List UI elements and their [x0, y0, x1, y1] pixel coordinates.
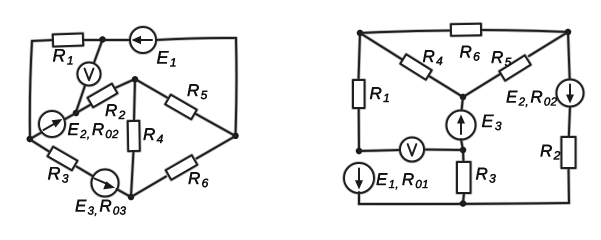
wire R6 to TR [481, 30, 568, 32]
svg-text:E3: E3 [482, 111, 502, 133]
wire top left to R6 [360, 31, 451, 34]
wire node H to R3 [462, 150, 465, 162]
wire voltmeter to node H [424, 149, 463, 152]
voltmeter V (right) [400, 138, 424, 162]
svg-text:E1: E1 [157, 48, 177, 70]
resistor R3 (right circuit) [457, 162, 471, 193]
resistor R1 [53, 33, 83, 46]
svg-text:R4: R4 [423, 47, 444, 68]
wire R6 to node F [197, 136, 236, 159]
wire left side down [30, 41, 32, 139]
svg-text:R5: R5 [187, 81, 208, 102]
wire node A to voltmeter [94, 41, 102, 64]
wire E3 to node H [461, 139, 463, 150]
node I [356, 148, 362, 154]
wire node C to R2 [76, 105, 90, 113]
wire R3 to E3 [77, 167, 94, 177]
wire E1 to TR corner [156, 38, 236, 40]
wire E3 to node E [117, 189, 132, 197]
resistor R5 [165, 95, 196, 120]
svg-text:R3: R3 [476, 165, 497, 186]
wire R3 to node J [463, 193, 464, 204]
wire R4 to node G [429, 76, 463, 97]
resistor R2 [88, 84, 118, 108]
node J [460, 200, 466, 206]
wire node G to E3 [462, 97, 464, 111]
resistor R4 [128, 121, 140, 151]
resistor R1 (right circuit) [353, 80, 365, 108]
node A [99, 36, 105, 42]
wire R2 to node B [115, 79, 135, 88]
svg-text:R1: R1 [53, 46, 74, 68]
wire TL corner to R1 [32, 40, 53, 41]
resistor R2 (right circuit) [562, 137, 576, 168]
EMF source E1 (right circuit) [344, 163, 374, 193]
node D [27, 136, 33, 142]
svg-text:R2: R2 [105, 101, 126, 122]
wire R1 to node A [83, 39, 101, 41]
EMF source E2 [39, 111, 65, 137]
node C [73, 110, 79, 116]
node TL (right circuit) [357, 30, 363, 36]
wire node E to R6 [131, 177, 166, 198]
EMF source E2 (right circuit) [557, 80, 584, 107]
EMF source E3 [92, 170, 119, 197]
resistor R6 (right circuit) [451, 24, 481, 36]
wire node A to E1 [103, 39, 130, 41]
wire E2 to node D [30, 132, 42, 139]
node H [460, 147, 466, 153]
svg-text:E2,R02: E2,R02 [506, 88, 558, 109]
wire E2 to R2 [569, 107, 570, 138]
node G [460, 94, 466, 100]
wire node D to R3 [30, 140, 49, 152]
wire bottom [359, 203, 569, 204]
svg-text:R4: R4 [143, 125, 164, 146]
wire R1 to node I [358, 108, 360, 151]
svg-text:E1,R01: E1,R01 [376, 170, 429, 191]
wire voltmeter to node C [76, 85, 85, 112]
node F [232, 133, 238, 139]
resistor R5 (right circuit) [499, 55, 530, 80]
wire R5 to node F [195, 114, 236, 137]
wire TR to R5 diagonal [529, 32, 568, 56]
wire TR down to E2 [568, 32, 570, 80]
wire right side down [235, 38, 238, 135]
svg-text:R5: R5 [491, 48, 512, 69]
wire TL down to R1 [359, 33, 361, 80]
svg-text:E3,R03: E3,R03 [75, 197, 127, 218]
resistor R4 (right circuit) [400, 54, 431, 79]
wire R5 to node G [463, 74, 501, 98]
wire R4 to node E [131, 151, 134, 196]
svg-text:R1: R1 [370, 84, 391, 105]
EMF source E3 (right circuit) [447, 111, 476, 140]
node B [132, 76, 138, 82]
resistor R6 [166, 155, 197, 180]
wire E1 to BL corner [358, 192, 360, 204]
svg-text:R6: R6 [188, 169, 209, 190]
EMF source E1 [130, 27, 156, 53]
wire R2 to BR corner [568, 168, 571, 203]
node TR (right circuit) [565, 29, 571, 35]
wire node I to voltmeter [359, 150, 400, 151]
wire node B to R4 [134, 79, 135, 121]
svg-text:R6: R6 [460, 43, 481, 64]
wire node C to E2 [64, 113, 76, 120]
wire TL to R4 diagonal [360, 33, 403, 60]
wire node B to R5 [135, 79, 167, 98]
node E [128, 194, 134, 200]
svg-text:R2: R2 [540, 142, 561, 163]
svg-text:E2,R02: E2,R02 [68, 120, 120, 141]
resistor R3 [48, 147, 78, 171]
voltmeter V (left) [78, 63, 101, 86]
